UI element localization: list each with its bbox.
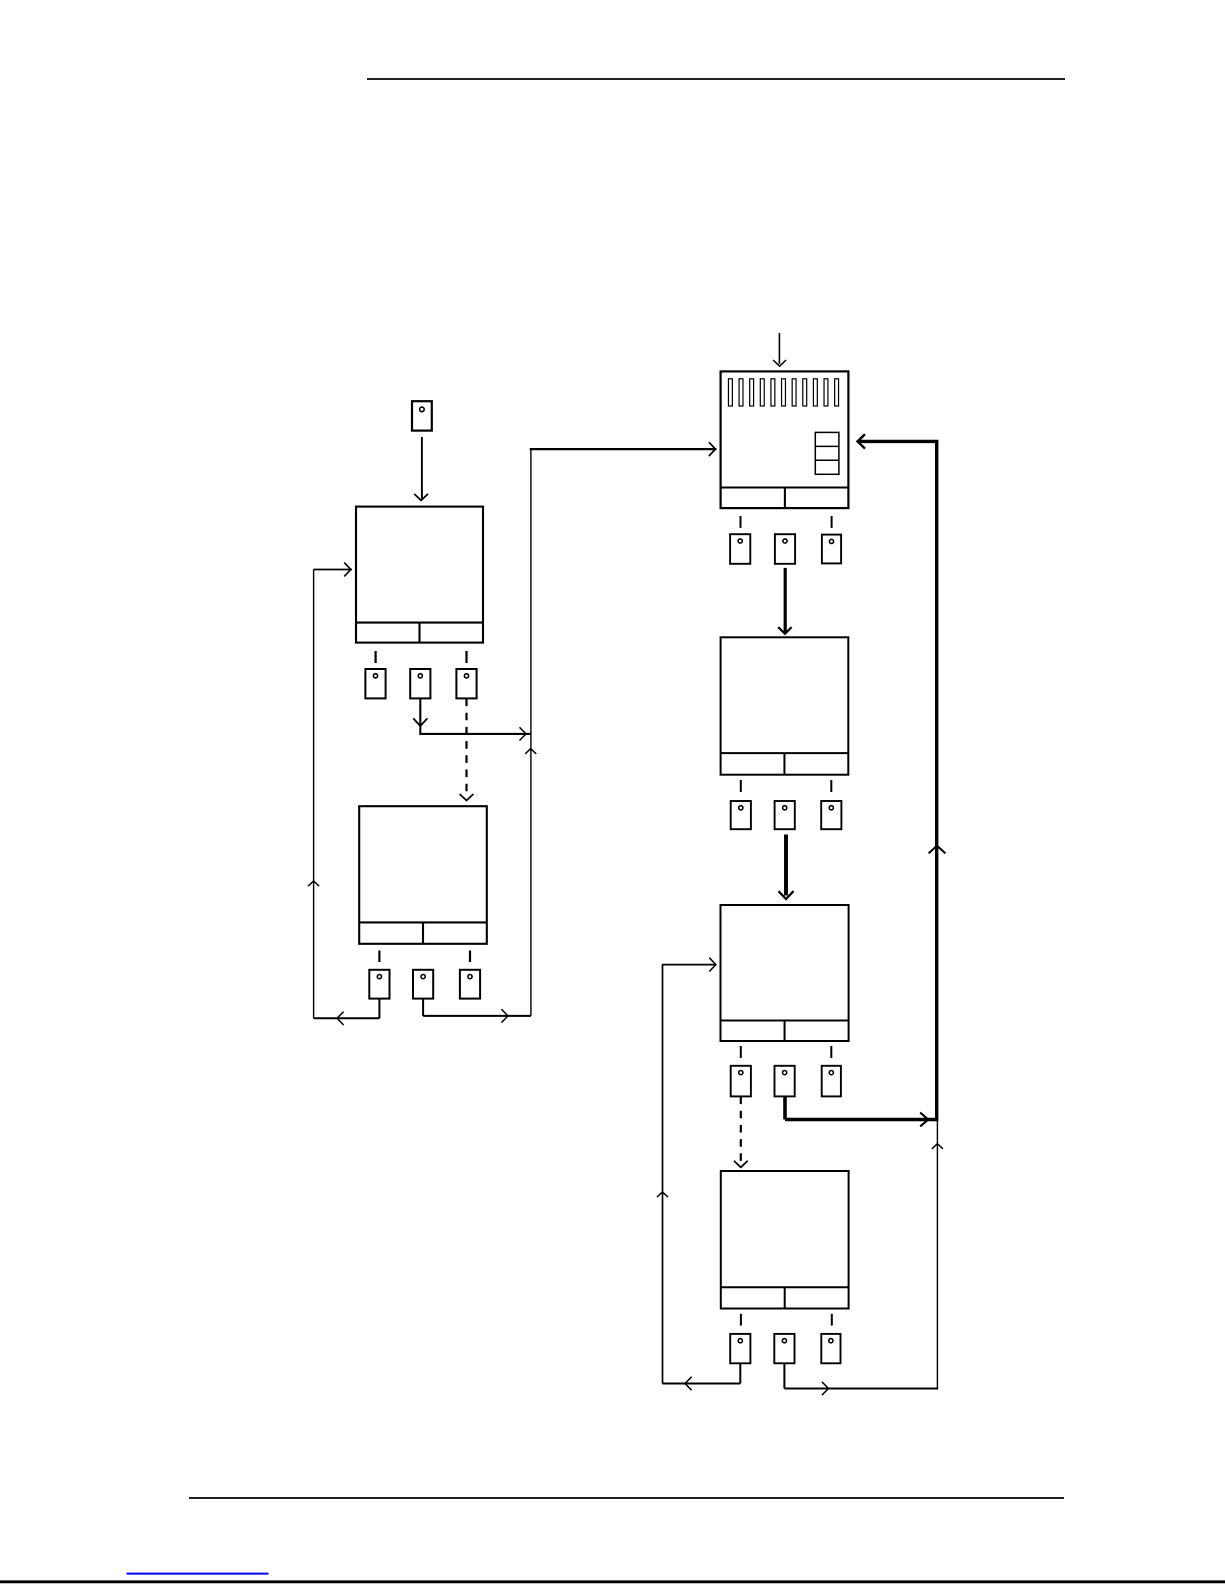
right riser wire up to top feed (525, 449, 536, 1016)
box1 output card 2 (410, 669, 430, 698)
dash below box2 left slot (378, 951, 380, 963)
box R2 output card 2 (775, 801, 795, 829)
box1 output card 3 (456, 669, 476, 698)
box1 output card 1 (365, 669, 385, 698)
dash below box R2 right slot (830, 780, 832, 792)
wire box2 card1 down-left loop back (314, 999, 380, 1025)
thick arrow box R2 card2 down to box R3 (779, 835, 794, 900)
wire box R4 card2 down-right to thin riser (784, 1363, 938, 1395)
card A (input record, left top) (412, 401, 432, 430)
dash below sorter right slot (831, 516, 833, 528)
sorter display stack (3 rows) (815, 432, 839, 474)
thin riser from box R4 card2 up to thick junction (932, 1121, 943, 1388)
dash below box R4 left slot (740, 1314, 742, 1326)
arrow from lower-left riser into box R3 (662, 958, 717, 972)
blue link underline bottom-left (127, 1573, 269, 1575)
wire box R4 card1 down-left to lower-left riser (663, 1363, 741, 1390)
left feedback vertical wire (308, 570, 319, 1019)
top horizontal rule (367, 78, 1065, 80)
sorter pocket slots (728, 379, 838, 406)
dash below box R2 left slot (740, 780, 742, 792)
box 1 (left column top process box) (356, 507, 483, 643)
wire box2 card2 down-right to riser (423, 999, 531, 1023)
box R4 (right column bottom box) (721, 1171, 849, 1309)
page bottom edge rule (0, 1580, 1225, 1583)
feed arrow into sorter box left side (530, 442, 717, 456)
dash below sorter left slot (740, 516, 742, 528)
sorter output card 3 (822, 535, 841, 564)
box R2 output card 3 (821, 801, 841, 829)
box R3 output card 3 (822, 1066, 841, 1097)
box R2 (right column second box) (721, 637, 849, 774)
bottom horizontal rule (189, 1497, 1064, 1499)
box2 output card 2 (413, 970, 433, 999)
sorter output card 2 (775, 534, 795, 564)
top input arrow into sorter (773, 333, 786, 366)
dash below box2 right slot (469, 951, 471, 963)
box2 output card 1 (369, 970, 389, 999)
dash below box R3 right slot (830, 1046, 832, 1058)
arrow left feedback into box 1 (314, 563, 352, 577)
thick right riser wire (929, 441, 946, 1121)
dash below box R3 left slot (740, 1046, 742, 1058)
dashed line box R3 card1 down to box R4 (734, 1097, 748, 1168)
arrow sorter card2 down to box R2 (778, 568, 791, 634)
arrow from box1 card2 down then right to feed line (413, 699, 531, 741)
box R2 output card 1 (731, 801, 751, 829)
box R3 (right column third box) (721, 905, 849, 1041)
dash below box R4 right slot (831, 1314, 833, 1326)
thick wire box R3 card2 down-right joining thick riser (785, 1097, 938, 1127)
dash below box1 left slot (375, 651, 377, 663)
arrow card A to box 1 (414, 437, 428, 500)
box R3 output card 2 (775, 1066, 795, 1097)
dash below box1 right slot (465, 651, 467, 663)
thick return arrow into sorter right side (858, 434, 939, 448)
box R4 output card 3 (821, 1334, 840, 1363)
sorter box (top right, with pockets and display) (721, 371, 849, 508)
box R4 output card 2 (774, 1334, 794, 1363)
box2 output card 3 (460, 970, 480, 999)
sorter output card 1 (730, 534, 750, 564)
box R4 output card 1 (730, 1334, 750, 1363)
box 2 (left column lower process box) (359, 806, 487, 944)
lower-left riser wire up to box R3 arrow (657, 965, 668, 1384)
box R3 output card 1 (731, 1066, 751, 1097)
dashed line from box1 card3 down to box 2 (460, 699, 474, 801)
